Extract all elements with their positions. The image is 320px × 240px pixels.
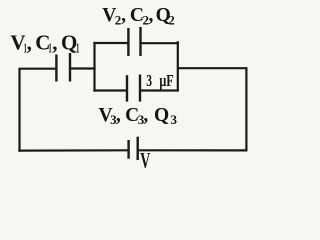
wire: top branch left segment xyxy=(93,42,128,44)
svg-text:V2,C2,Q2: V2,C2,Q2 xyxy=(102,5,175,27)
battery V: left (short) plate xyxy=(127,140,129,159)
battery V: right (long) plate xyxy=(136,137,138,160)
capacitor C2: right plate xyxy=(139,27,141,56)
wire: top left horizontal (left wire to C1) xyxy=(18,68,56,70)
wire: bottom branch right segment xyxy=(140,89,179,91)
svg-text:μF: μF xyxy=(159,71,173,90)
wire: right vertical of outer loop xyxy=(245,68,247,151)
svg-text:V3,C3,Q3: V3,C3,Q3 xyxy=(99,105,178,127)
wire: output tap (box right side to right wire) xyxy=(178,67,248,69)
capacitor C2: left plate xyxy=(127,28,129,56)
wire: bottom left (to battery) xyxy=(18,149,128,152)
wire: C1 to parallel box xyxy=(70,67,96,69)
capacitor C3: left plate xyxy=(126,75,128,101)
wire: parallel box right side xyxy=(177,41,179,91)
capacitor C1: right plate xyxy=(69,53,71,82)
wire: top branch right segment xyxy=(141,42,179,44)
capacitor C3: right plate xyxy=(139,75,141,102)
wire: bottom right (battery to right side) xyxy=(138,149,248,151)
wire: bottom branch left segment xyxy=(93,89,127,91)
wire: left vertical of outer loop xyxy=(18,69,20,152)
svg-text:3: 3 xyxy=(146,71,152,90)
capacitor C1: left plate xyxy=(55,55,57,82)
wire: parallel box left side xyxy=(93,42,95,92)
svg-text:V1,C1,Q1: V1,C1,Q1 xyxy=(10,30,79,55)
